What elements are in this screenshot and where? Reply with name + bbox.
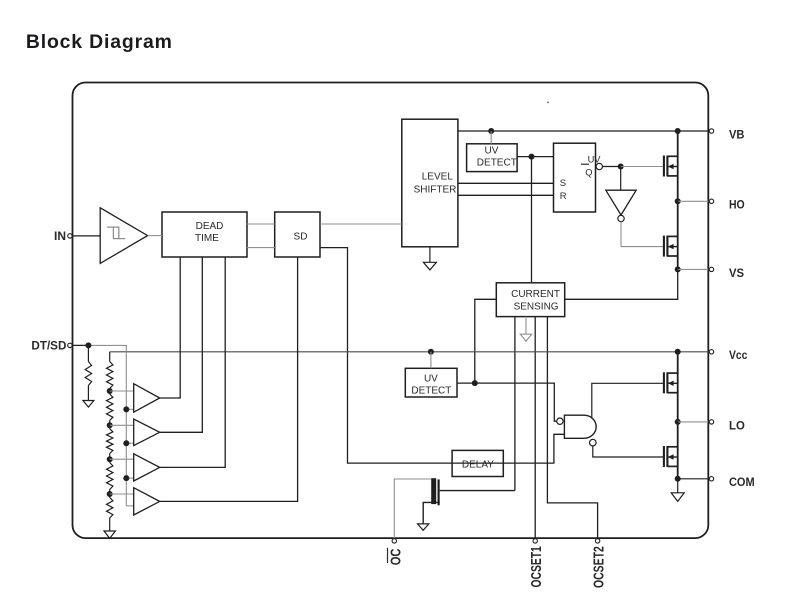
ground below Q5 xyxy=(422,523,424,525)
svg-text:IN: IN xyxy=(54,229,66,243)
wire UV detect 2 to NAND input xyxy=(457,383,557,421)
node on DT/SD rail xyxy=(123,475,129,481)
wire COM node to pin xyxy=(678,478,709,480)
pin IN xyxy=(68,234,72,238)
wire DT/SD rail to comparator A4 xyxy=(126,505,133,507)
wire DT/SD rail to comparator A2 xyxy=(126,442,133,444)
wire OC pin to FET gate xyxy=(394,479,431,539)
svg-text:Vcc: Vcc xyxy=(729,348,748,362)
wire divider tap to comparator A1 xyxy=(110,390,134,392)
node tap 3 xyxy=(107,456,113,462)
svg-text:SHIFTER: SHIFTER xyxy=(414,185,457,196)
node tap 4 xyxy=(107,491,113,497)
resistor R1 (DT/SD to ground) xyxy=(87,345,89,361)
node: latch input / current sensing branch xyxy=(529,154,535,160)
pin LO xyxy=(709,420,713,424)
wire current sensing to OC comparator FET drain xyxy=(514,317,516,491)
svg-text:TIME: TIME xyxy=(195,233,219,244)
UV detect block (high side) U3 xyxy=(467,144,517,172)
wire DT/SD pin to divider xyxy=(72,344,88,346)
Vcc rail wire xyxy=(110,351,709,353)
wire divider tap to comparator A4 xyxy=(110,493,134,495)
wire current sensing to UV detect node xyxy=(475,299,497,383)
svg-text:VS: VS xyxy=(729,266,744,280)
node on DT/SD rail xyxy=(123,406,129,412)
level shifter block xyxy=(402,119,458,247)
delay block xyxy=(452,450,503,476)
wire VS node to pin xyxy=(678,268,709,270)
svg-text:SENSING: SENSING xyxy=(514,301,559,312)
wire level shifter to latch R xyxy=(458,194,554,196)
IC boundary xyxy=(73,83,709,539)
wire latch output to inverter xyxy=(620,167,622,191)
node: UV detect 2 / current sensing branch xyxy=(472,380,478,386)
node VS xyxy=(675,266,681,272)
comparator A4 xyxy=(134,488,160,515)
wire dead time to SD (upper) xyxy=(247,223,275,225)
wire VS to current sensing xyxy=(565,269,678,299)
pin OCSET1 xyxy=(533,539,537,543)
pin Vcc xyxy=(709,350,713,354)
node HO xyxy=(675,198,681,204)
svg-text:LO: LO xyxy=(729,418,745,432)
node DT/SD xyxy=(85,342,91,348)
comparator A1 xyxy=(134,384,160,413)
wire UV detect to SR latch xyxy=(517,156,553,158)
pin VS xyxy=(709,267,713,271)
svg-text:OCSET1: OCSET1 xyxy=(529,546,545,587)
wire NAND top output to low-side pull-up gate xyxy=(592,383,664,418)
SR latch U2 xyxy=(554,143,603,212)
wire VB to HO rail xyxy=(677,131,679,201)
resistor R5 xyxy=(107,463,113,490)
node: Vcc rail / low-side FET drain xyxy=(675,349,681,355)
wire divider tap to comparator A2 xyxy=(110,424,134,426)
inverter U5 xyxy=(606,190,636,222)
wire comparator A2 output xyxy=(160,257,203,432)
wire comparator A3 output xyxy=(160,257,226,467)
svg-text:DEAD: DEAD xyxy=(196,221,224,232)
svg-text:OC: OC xyxy=(388,548,404,565)
wire DT/SD rail to comparator A3 xyxy=(126,477,133,479)
low-side pull-up MOSFET Q3 xyxy=(664,372,678,393)
pin OC xyxy=(392,539,396,543)
node LO xyxy=(675,419,681,425)
svg-text:DT/SD: DT/SD xyxy=(31,339,66,353)
wire latch output xyxy=(603,166,621,168)
svg-text:SD: SD xyxy=(294,231,308,242)
resistor R3 xyxy=(107,394,113,421)
node tap 2 xyxy=(107,422,113,428)
node: VB rail / UV detect stub xyxy=(488,128,494,134)
dead time block xyxy=(162,212,247,257)
UV detect block (low side) U4 xyxy=(405,368,457,397)
wire divider tap to comparator A3 xyxy=(110,458,134,460)
wire NAND bubble output to low-side pull-down gate xyxy=(593,446,664,457)
wire LO to COM rail xyxy=(677,422,679,479)
svg-text:HO: HO xyxy=(729,198,745,212)
wire UV detect to VB rail xyxy=(490,131,492,144)
svg-text:VB: VB xyxy=(729,127,745,141)
ground below R1 xyxy=(87,400,89,402)
svg-text:R: R xyxy=(560,191,567,202)
wire LO node to pin xyxy=(678,421,709,423)
high-side pull-down MOSFET Q2 xyxy=(664,236,678,257)
wire down to current sensing xyxy=(531,157,533,283)
wire DT/SD to comparator minus rail xyxy=(88,345,126,506)
node: Vcc rail / UV detect stub xyxy=(428,349,434,355)
resistor R6 (divider bottom) xyxy=(107,498,113,519)
node tap 1 xyxy=(107,388,113,394)
wire Q5 source to ground xyxy=(423,502,440,524)
svg-text:DELAY: DELAY xyxy=(462,459,494,470)
wire SD to delay to NAND input xyxy=(320,248,564,464)
svg-text:Q: Q xyxy=(585,167,592,177)
ground below divider xyxy=(109,530,111,532)
resistor R2 (divider top) xyxy=(109,352,111,362)
svg-text:LEVEL: LEVEL xyxy=(422,171,454,182)
node: VB rail / high-side FET drain xyxy=(675,128,681,134)
wire Vcc to LO rail xyxy=(677,352,679,422)
wire dead time to SD (lower) xyxy=(247,247,275,249)
wire HO node to pin xyxy=(678,200,709,202)
pin COM xyxy=(709,477,713,481)
comparator A2 xyxy=(134,419,160,446)
comparator A3 xyxy=(134,454,160,481)
VB rail wire xyxy=(458,130,708,132)
over-current sense MOSFET Q5 xyxy=(431,478,440,505)
schmitt trigger input buffer xyxy=(100,208,147,264)
svg-text:UV: UV xyxy=(424,373,438,384)
node: latch output branch xyxy=(618,164,624,170)
wire current sensing to OCSET2 xyxy=(547,317,597,539)
wire SD to level shifter xyxy=(320,223,402,225)
wire comparator A4 output xyxy=(160,257,298,501)
ground below current sensing xyxy=(525,317,527,335)
wire to high-side FET gate xyxy=(621,166,664,168)
svg-text:S: S xyxy=(560,178,566,189)
node COM xyxy=(675,476,681,482)
wire inverter output to pull-down FET gate xyxy=(621,222,664,247)
pin HO xyxy=(709,199,713,203)
svg-text:OCSET2: OCSET2 xyxy=(592,546,608,588)
svg-text:DETECT: DETECT xyxy=(411,385,451,396)
stray dot artifact xyxy=(547,102,549,104)
wire DT/SD rail to comparator A1 xyxy=(126,408,133,410)
svg-text:Block Diagram: Block Diagram xyxy=(26,31,173,53)
wire current sensing to OCSET1 xyxy=(534,317,536,539)
wire UV detect to Vcc rail xyxy=(430,352,432,369)
wire Q5 drain xyxy=(440,490,515,492)
wire comparator A1 output xyxy=(160,257,181,398)
wire HO to VS rail xyxy=(677,201,679,269)
resistor R4 xyxy=(107,429,113,454)
wire level shifter to latch S xyxy=(458,182,554,184)
wire buffer to dead time xyxy=(148,235,162,237)
low-side pull-down MOSFET Q4 xyxy=(664,446,678,467)
svg-text:CURRENT: CURRENT xyxy=(511,289,560,300)
node on DT/SD rail xyxy=(123,440,129,446)
ground below COM xyxy=(677,479,679,493)
high-side pull-up MOSFET Q1 xyxy=(664,156,678,177)
pin OCSET2 xyxy=(595,539,599,543)
pin DT/SD xyxy=(68,343,72,347)
NAND gate U6 xyxy=(557,415,596,446)
wire IN pin to buffer xyxy=(72,235,100,237)
svg-text:DETECT: DETECT xyxy=(477,157,517,168)
pin VB xyxy=(709,129,713,133)
svg-text:UV: UV xyxy=(485,146,499,157)
current sensing block xyxy=(496,283,564,317)
SD block xyxy=(275,212,320,257)
svg-text:COM: COM xyxy=(729,475,755,489)
ground below level shifter xyxy=(429,247,431,262)
